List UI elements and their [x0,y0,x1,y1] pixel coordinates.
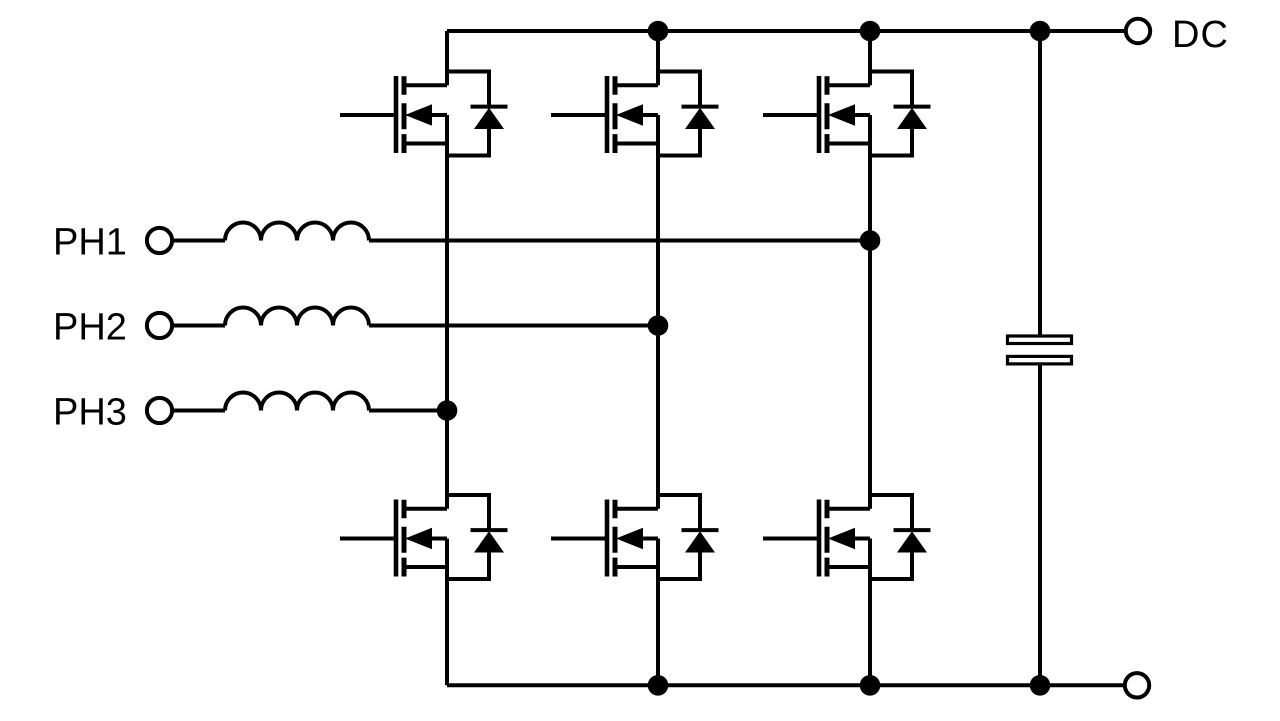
svg-text:PH3: PH3 [53,392,127,434]
svg-text:DC: DC [1172,14,1229,56]
svg-text:PH1: PH1 [53,222,127,264]
svg-text:PH2: PH2 [53,307,127,349]
